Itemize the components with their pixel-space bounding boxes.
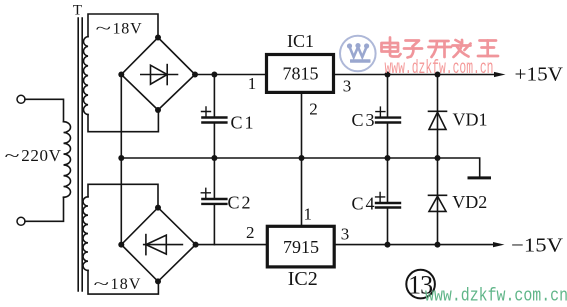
svg-text:www.dzkfw.com.cn: www.dzkfw.com.cn (385, 57, 494, 79)
svg-text:~220V: ~220V (5, 146, 62, 165)
svg-text:−15V: −15V (511, 235, 564, 257)
svg-text:www.dzkfw.com.cn: www.dzkfw.com.cn (425, 287, 567, 307)
svg-text:C2: C2 (228, 193, 253, 213)
svg-text:VD2: VD2 (452, 192, 487, 212)
svg-text:2: 2 (309, 100, 318, 119)
svg-text:IC1: IC1 (287, 31, 314, 51)
svg-text:3: 3 (343, 76, 352, 95)
svg-text:~18V: ~18V (94, 276, 142, 293)
svg-text:C4: C4 (352, 194, 377, 214)
svg-text:7915: 7915 (283, 237, 319, 257)
svg-text:2: 2 (246, 223, 255, 242)
svg-text:VD1: VD1 (453, 110, 488, 130)
svg-text:3: 3 (341, 225, 350, 244)
svg-text:C3: C3 (352, 110, 377, 130)
svg-text:IC2: IC2 (288, 268, 318, 290)
svg-text:C1: C1 (231, 112, 256, 132)
svg-text:~18V: ~18V (96, 21, 143, 38)
svg-text:1: 1 (304, 204, 313, 223)
svg-text:7815: 7815 (283, 64, 319, 84)
svg-text:T: T (73, 3, 82, 19)
svg-text:1: 1 (248, 74, 257, 93)
svg-text:+15V: +15V (515, 63, 564, 85)
